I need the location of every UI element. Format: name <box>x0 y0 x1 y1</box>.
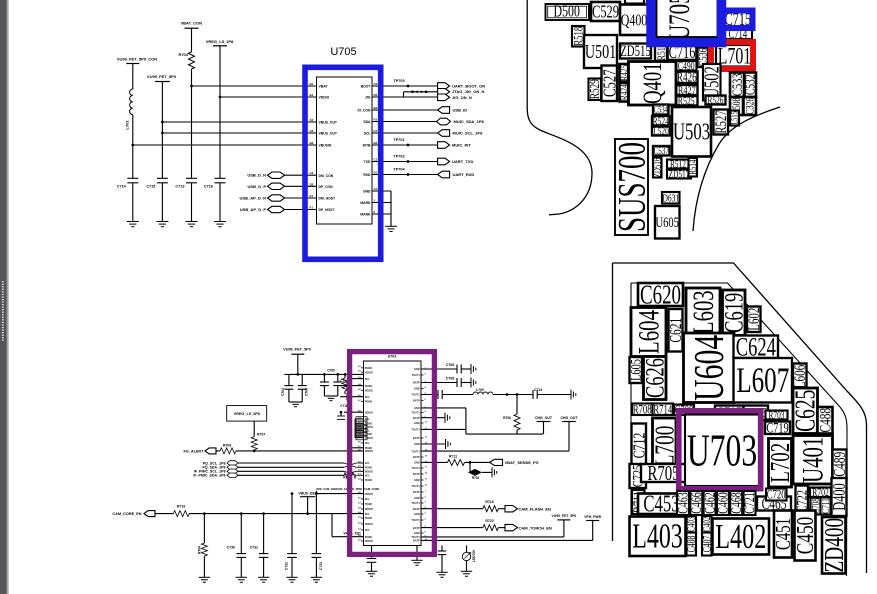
svg-text:C722: C722 <box>794 490 810 512</box>
svg-text:SCL: SCL <box>365 497 371 501</box>
svg-text:VDDIO: VDDIO <box>365 389 373 393</box>
svg-text:PGND: PGND <box>365 366 373 370</box>
svg-text:U501: U501 <box>585 40 616 63</box>
svg-text:MARK: MARK <box>360 201 371 205</box>
svg-text:USB_AP_D_N: USB_AP_D_N <box>240 196 267 201</box>
svg-text:U703: U703 <box>388 355 397 359</box>
svg-text:GND: GND <box>414 461 420 465</box>
svg-text:TOUT1: TOUT1 <box>411 484 420 488</box>
svg-text:C706: C706 <box>446 363 454 367</box>
svg-text:TP703: TP703 <box>393 79 404 83</box>
svg-text:VPH_PWR: VPH_PWR <box>584 515 601 519</box>
svg-text:JTAG_JIG_ON_N: JTAG_JIG_ON_N <box>452 89 484 94</box>
svg-text:VBUSIN: VBUSIN <box>319 144 332 148</box>
svg-text:C450: C450 <box>791 517 819 554</box>
svg-text:L603: L603 <box>686 290 720 334</box>
svg-text:E1: E1 <box>310 194 314 198</box>
svg-text:SCL: SCL <box>365 512 371 516</box>
svg-text:BATP: BATP <box>413 490 420 494</box>
svg-text:VDDIO: VDDIO <box>365 370 373 374</box>
svg-text:FG_ALERT: FG_ALERT <box>183 449 204 453</box>
svg-text:L702: L702 <box>766 443 796 483</box>
svg-text:R711: R711 <box>449 454 457 458</box>
svg-text:TOUT1: TOUT1 <box>411 449 420 453</box>
svg-text:VU99_FET_5P0: VU99_FET_5P0 <box>147 74 177 79</box>
svg-text:BATP: BATP <box>413 539 420 543</box>
svg-text:SCL: SCL <box>365 441 371 445</box>
svg-text:SCL: SCL <box>365 474 371 478</box>
svg-text:R714: R714 <box>653 403 672 417</box>
svg-text:VREG_L5_1P8: VREG_L5_1P8 <box>206 39 234 44</box>
svg-text:C403: C403 <box>685 517 697 532</box>
svg-text:C402: C402 <box>701 517 713 532</box>
svg-text:MUIC_SDA_1P8: MUIC_SDA_1P8 <box>454 119 485 124</box>
svg-text:VDDIO: VDDIO <box>365 436 373 440</box>
svg-text:VDDIO: VDDIO <box>319 96 330 100</box>
svg-text:C529: C529 <box>592 2 619 22</box>
svg-text:F2: F2 <box>374 118 378 122</box>
svg-text:C721: C721 <box>741 492 757 513</box>
svg-text:DP_HOST: DP_HOST <box>319 208 336 212</box>
svg-text:L700: L700 <box>650 426 680 467</box>
svg-text:C733: C733 <box>319 562 323 570</box>
svg-text:MARK: MARK <box>360 213 371 217</box>
svg-text:B2: B2 <box>374 106 378 110</box>
svg-text:R426: R426 <box>677 71 697 85</box>
svg-text:UART_RXD: UART_RXD <box>453 172 475 177</box>
svg-text:VREG_L5_1P8: VREG_L5_1P8 <box>234 412 260 416</box>
svg-text:SUS700: SUS700 <box>611 142 654 232</box>
svg-text:C713: C713 <box>534 388 542 392</box>
svg-text:BATP: BATP <box>413 472 420 476</box>
svg-text:C620: C620 <box>640 280 681 310</box>
svg-text:GND: GND <box>414 442 420 446</box>
svg-text:U401: U401 <box>796 437 830 483</box>
svg-text:PGND: PGND <box>365 535 373 539</box>
svg-text:GND: GND <box>414 367 420 371</box>
svg-text:VU99_FET_5P0: VU99_FET_5P0 <box>552 514 577 518</box>
svg-text:CAM_CORE_EN: CAM_CORE_EN <box>112 512 141 516</box>
svg-text:D1: D1 <box>374 171 378 175</box>
svg-text:L402: L402 <box>715 518 766 556</box>
svg-text:INTB: INTB <box>363 144 371 148</box>
svg-text:SDA: SDA <box>363 120 371 124</box>
svg-text:GND: GND <box>414 421 420 425</box>
svg-text:BATP: BATP <box>413 455 420 459</box>
svg-text:F3: F3 <box>374 129 378 133</box>
svg-text:R709: R709 <box>223 444 231 448</box>
svg-text:VBUS_OUT: VBUS_OUT <box>319 132 338 136</box>
svg-text:SCL: SCL <box>365 377 371 381</box>
svg-text:PGND: PGND <box>365 478 373 482</box>
svg-text:CHG_OUT: CHG_OUT <box>560 416 578 420</box>
svg-text:C326: C326 <box>744 97 757 114</box>
svg-text:C626: C626 <box>640 358 669 398</box>
svg-text:VDDIO: VDDIO <box>365 449 373 453</box>
svg-text:L515: L515 <box>729 111 739 125</box>
svg-text:L403: L403 <box>632 519 683 556</box>
svg-text:BATP: BATP <box>413 381 420 385</box>
svg-text:TP701: TP701 <box>393 138 404 142</box>
svg-text:USB_AP_D_P: USB_AP_D_P <box>240 207 267 212</box>
svg-text:TP704: TP704 <box>393 168 405 172</box>
svg-text:R706: R706 <box>503 416 511 420</box>
svg-text:VDDIO: VDDIO <box>365 410 373 414</box>
svg-text:LED700: LED700 <box>472 550 476 562</box>
svg-text:R707: R707 <box>257 433 265 437</box>
svg-text:CAM_TORCH_EN: CAM_TORCH_EN <box>519 525 552 530</box>
svg-text:JIG_ON_N: JIG_ON_N <box>452 95 472 100</box>
svg-text:C715: C715 <box>146 184 155 188</box>
svg-text:C711: C711 <box>340 404 348 408</box>
svg-text:L701: L701 <box>125 120 130 130</box>
svg-text:R708: R708 <box>633 403 652 417</box>
svg-text:GND: GND <box>363 190 371 194</box>
svg-text:U604: U604 <box>685 335 733 401</box>
svg-text:C488: C488 <box>816 408 835 433</box>
svg-text:USB_D_N: USB_D_N <box>247 173 266 178</box>
svg-text:IF_PMIC_SDA_1P8: IF_PMIC_SDA_1P8 <box>193 474 225 478</box>
svg-text:VBUS_OUT: VBUS_OUT <box>319 121 338 125</box>
svg-text:B3: B3 <box>310 141 314 145</box>
svg-text:UART_TXD: UART_TXD <box>452 159 473 164</box>
svg-text:C713: C713 <box>175 184 184 188</box>
svg-text:PGND: PGND <box>365 384 373 388</box>
svg-text:VDDIO: VDDIO <box>365 539 373 543</box>
svg-text:BATP: BATP <box>413 399 420 403</box>
svg-text:GND: GND <box>414 478 420 482</box>
svg-text:DM_CON: DM_CON <box>319 174 334 178</box>
svg-text:VDDIO: VDDIO <box>365 425 373 429</box>
svg-text:C720: C720 <box>767 488 786 502</box>
svg-text:L602: L602 <box>745 307 762 330</box>
svg-text:VBAT: VBAT <box>319 85 329 89</box>
svg-text:CAM_FLASH_EN: CAM_FLASH_EN <box>519 507 552 512</box>
svg-text:D2: D2 <box>374 93 378 97</box>
svg-text:R722: R722 <box>485 519 493 523</box>
svg-text:VBUS_DET: VBUS_DET <box>298 491 318 495</box>
svg-text:C705: C705 <box>327 369 335 373</box>
svg-text:TOUT1: TOUT1 <box>411 373 420 377</box>
svg-text:PGND: PGND <box>365 400 373 404</box>
svg-text:C2: C2 <box>374 82 378 86</box>
svg-text:C702: C702 <box>340 379 348 383</box>
svg-text:CHG_OUT: CHG_OUT <box>535 416 553 420</box>
svg-text:R719: R719 <box>177 505 185 509</box>
svg-text:TP702: TP702 <box>393 155 404 159</box>
svg-text:U703: U703 <box>687 426 757 476</box>
svg-text:VU99_FET_5P0: VU99_FET_5P0 <box>283 347 311 351</box>
svg-text:R703: R703 <box>472 476 480 480</box>
svg-text:C731: C731 <box>250 546 258 550</box>
svg-text:C3: C3 <box>310 171 314 175</box>
svg-text:L701: L701 <box>718 44 751 70</box>
svg-text:BOOT: BOOT <box>361 85 372 89</box>
svg-text:R529: R529 <box>589 79 603 99</box>
svg-text:C527: C527 <box>600 69 620 97</box>
svg-text:TOUT1: TOUT1 <box>411 393 420 397</box>
svg-text:F1: F1 <box>310 206 314 210</box>
svg-text:MUIC_SCL_1P8: MUIC_SCL_1P8 <box>453 131 484 136</box>
svg-text:U503: U503 <box>673 120 710 146</box>
svg-text:U605: U605 <box>656 213 679 230</box>
svg-text:RXD: RXD <box>363 173 371 177</box>
svg-text:C730: C730 <box>227 546 235 550</box>
svg-text:D500: D500 <box>554 3 580 21</box>
svg-text:D400: D400 <box>830 483 850 511</box>
svg-text:PGND: PGND <box>365 516 373 520</box>
svg-text:SCL: SCL <box>365 395 371 399</box>
svg-text:C534: C534 <box>654 104 668 114</box>
svg-text:VU99_FET_5P0_CON: VU99_FET_5P0_CON <box>117 57 157 62</box>
svg-text:TOUT1: TOUT1 <box>411 428 420 432</box>
svg-text:C732: C732 <box>285 562 289 570</box>
svg-text:C712: C712 <box>630 433 649 459</box>
svg-text:JIG: JIG <box>365 96 371 100</box>
svg-text:R716: R716 <box>485 500 493 504</box>
svg-text:C704: C704 <box>281 388 285 396</box>
svg-text:SCL: SCL <box>365 417 371 421</box>
svg-text:A2: A2 <box>310 118 314 122</box>
svg-text:A3: A3 <box>310 129 314 133</box>
svg-text:IO_CON: IO_CON <box>358 109 372 113</box>
svg-text:C537: C537 <box>654 145 670 157</box>
svg-text:C716: C716 <box>204 184 213 188</box>
svg-text:TXD: TXD <box>364 160 371 164</box>
svg-text:Q400: Q400 <box>621 11 648 30</box>
svg-text:PGND: PGND <box>365 466 373 470</box>
svg-text:TOUT1: TOUT1 <box>411 535 420 539</box>
svg-text:C619: C619 <box>719 293 748 333</box>
svg-text:VDDIO: VDDIO <box>365 522 373 526</box>
svg-text:A1: A1 <box>374 187 378 191</box>
svg-text:GND: GND <box>414 387 420 391</box>
svg-text:C708: C708 <box>446 377 454 381</box>
svg-text:MUIC_INT: MUIC_INT <box>452 143 471 148</box>
svg-text:D631: D631 <box>662 193 679 205</box>
svg-text:VDDIO: VDDIO <box>365 507 373 511</box>
svg-text:VDDIO: VDDIO <box>365 492 373 496</box>
svg-text:L700: L700 <box>476 388 484 392</box>
svg-text:BATP: BATP <box>413 526 420 530</box>
svg-text:SCL: SCL <box>365 429 371 433</box>
svg-text:SCL: SCL <box>365 528 371 532</box>
svg-text:R526: R526 <box>708 94 724 106</box>
svg-text:TOUT1: TOUT1 <box>411 411 420 415</box>
svg-text:C532: C532 <box>743 74 758 95</box>
svg-text:DP_CON: DP_CON <box>319 185 334 189</box>
svg-text:C703: C703 <box>305 388 309 396</box>
svg-text:E2: E2 <box>310 93 314 97</box>
svg-text:TOUT1: TOUT1 <box>411 501 420 505</box>
svg-text:VDDIO: VDDIO <box>365 470 373 474</box>
svg-text:U705: U705 <box>662 0 696 40</box>
svg-text:USB_D_P: USB_D_P <box>248 184 267 189</box>
svg-text:D3: D3 <box>310 182 314 186</box>
svg-text:R705: R705 <box>647 461 679 484</box>
svg-text:L606: L606 <box>791 365 808 389</box>
svg-text:TOUT1: TOUT1 <box>411 466 420 470</box>
svg-text:PGND: PGND <box>365 422 373 426</box>
svg-text:C1: C1 <box>374 158 378 162</box>
svg-text:L607: L607 <box>736 360 789 401</box>
svg-text:DM_HOST: DM_HOST <box>319 197 337 201</box>
svg-text:C408: C408 <box>686 535 699 552</box>
svg-text:SCL: SCL <box>365 461 371 465</box>
svg-text:GND: GND <box>414 531 420 535</box>
svg-text:TOUT1: TOUT1 <box>411 518 420 522</box>
svg-text:R514: R514 <box>687 159 699 175</box>
svg-text:PGND: PGND <box>365 502 373 506</box>
svg-text:C719: C719 <box>766 420 788 436</box>
svg-text:VBAT_SENSE_FG: VBAT_SENSE_FG <box>505 460 539 465</box>
svg-text:BATP: BATP <box>413 507 420 511</box>
svg-text:B1: B1 <box>310 82 314 86</box>
svg-text:L604: L604 <box>632 310 666 354</box>
svg-text:R527: R527 <box>712 110 729 133</box>
svg-text:R704: R704 <box>178 52 188 57</box>
svg-text:GND: GND <box>414 512 420 516</box>
svg-text:GND: GND <box>414 496 420 500</box>
svg-text:ZD400: ZD400 <box>820 518 850 573</box>
svg-text:USB_ID: USB_ID <box>453 108 468 113</box>
svg-text:C714: C714 <box>117 184 127 188</box>
svg-text:L520: L520 <box>653 125 669 137</box>
svg-text:GND: GND <box>414 406 420 410</box>
svg-text:BATP: BATP <box>413 436 420 440</box>
svg-text:U705: U705 <box>330 46 356 58</box>
svg-text:SCL: SCL <box>364 132 371 136</box>
svg-text:PGND: PGND <box>365 432 373 436</box>
svg-text:B2: B2 <box>374 141 378 145</box>
svg-text:UART_BOOT_ON: UART_BOOT_ON <box>452 84 485 89</box>
svg-text:VBAT_CON: VBAT_CON <box>180 21 202 26</box>
svg-text:Q401: Q401 <box>637 62 667 103</box>
svg-text:C489: C489 <box>831 452 850 477</box>
svg-text:BATP: BATP <box>413 416 420 420</box>
